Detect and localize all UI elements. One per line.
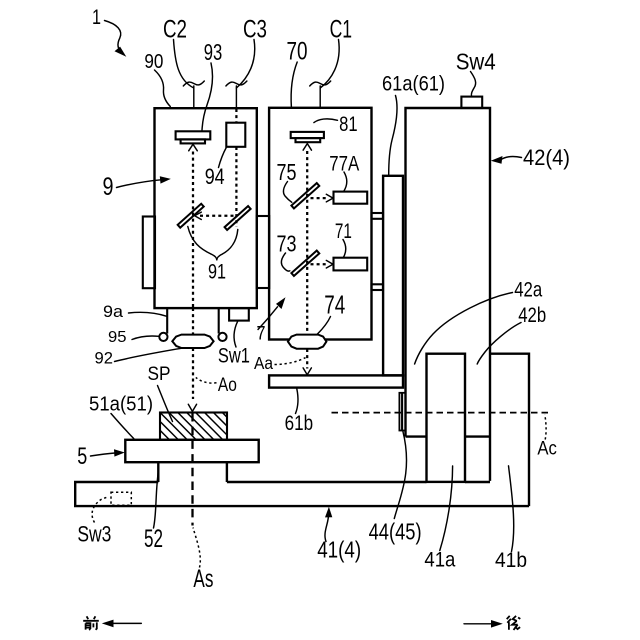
svg-text:61a(61): 61a(61) [382, 73, 445, 96]
optical path to 77A [311, 197, 328, 199]
svg-text:9a: 9a [103, 302, 124, 321]
leader arrow for label 1 [105, 21, 122, 53]
leader 44(45) [394, 431, 406, 519]
arrow down onto specimen SP [188, 404, 196, 411]
svg-text:51a(51): 51a(51) [89, 393, 153, 415]
svg-text:Ao: Ao [218, 375, 237, 396]
leader 52 [154, 470, 159, 528]
switch Sw1 box [229, 308, 249, 321]
lens barrel 9a [166, 308, 168, 333]
leader 81 [314, 119, 338, 123]
svg-text:91: 91 [208, 261, 226, 284]
axis Ac (dashed horizontal) [332, 412, 549, 414]
leader Sw3 (dotted) [92, 497, 107, 523]
switch Sw3 dotted box [111, 492, 131, 505]
lens 74 [288, 335, 327, 349]
svg-text:70: 70 [287, 38, 308, 66]
svg-text:41b: 41b [495, 548, 527, 572]
svg-text:42b: 42b [518, 304, 546, 327]
svg-text:41(4): 41(4) [317, 537, 361, 563]
leader 75 [283, 182, 291, 203]
pillar 41a [427, 354, 466, 482]
svg-text:Ac: Ac [537, 438, 557, 460]
svg-text:5: 5 [77, 443, 87, 470]
mirror 91 right [225, 206, 251, 230]
svg-text:61b: 61b [285, 412, 314, 435]
svg-text:75: 75 [277, 159, 297, 185]
svg-text:95: 95 [108, 329, 127, 346]
cable C2 [174, 40, 194, 89]
cable C1 [320, 40, 339, 89]
leader arrow 5 [91, 453, 116, 456]
rear direction arrow [464, 623, 498, 625]
svg-text:1: 1 [92, 6, 101, 29]
tab upper between box 7 and bar 61a [372, 213, 384, 219]
column 42 bottom edge right of pillar [465, 435, 490, 437]
brace 91 [188, 227, 217, 260]
knob 95 right [218, 333, 226, 341]
leader Aa (dotted) [275, 358, 306, 365]
svg-text:Sw1: Sw1 [218, 345, 250, 368]
pedestal 52 left side [157, 462, 159, 482]
svg-text:77A: 77A [329, 152, 360, 176]
svg-text:SP: SP [148, 363, 171, 385]
leader 95 [132, 336, 159, 340]
pedestal 52 right side [226, 462, 228, 482]
horizontal optical path between mirrors [200, 215, 236, 217]
leader 93 [202, 63, 212, 130]
leader 41a [440, 466, 453, 551]
front direction arrow [107, 622, 141, 624]
svg-text:C2: C2 [163, 15, 187, 43]
leader SP [158, 386, 173, 422]
svg-text:C1: C1 [330, 15, 353, 43]
leader 51a(51) [111, 414, 134, 439]
leader As (dotted) [193, 528, 200, 568]
leader Ao (dotted) [196, 377, 217, 383]
svg-text:44(45): 44(45) [369, 519, 422, 545]
base 41 top edge (between pillars) [465, 481, 490, 483]
lens 92 [172, 335, 213, 348]
svg-text:As: As [193, 565, 213, 593]
arrow down onto plate 61b [303, 368, 311, 375]
box 9 (first camera unit) [155, 108, 257, 308]
pillar 41b top and right edge [490, 354, 529, 506]
leader 70 [291, 62, 297, 107]
leader 61b [296, 389, 298, 414]
camera 93 (image sensor) [176, 131, 211, 139]
optical axis in box 9 (dotted) [192, 152, 194, 309]
svg-text:C3: C3 [243, 15, 267, 43]
connector tab between box 9 and box 7 [257, 216, 269, 288]
cable C3 [236, 40, 254, 89]
sensor 71 box [334, 258, 368, 271]
svg-text:93: 93 [204, 39, 223, 65]
leader 74 [317, 317, 330, 335]
svg-text:52: 52 [144, 525, 163, 553]
svg-text:9: 9 [103, 173, 114, 201]
kanji mae (front) [83, 616, 99, 630]
svg-text:71: 71 [335, 219, 352, 243]
leader 77A [344, 172, 347, 191]
svg-text:41a: 41a [424, 548, 455, 572]
leader 41b [509, 466, 514, 552]
base 41 top edge (middle segment) [227, 481, 427, 483]
leader 94 [219, 148, 227, 168]
arrow up into camera 93 [189, 144, 198, 151]
leader 42b [477, 323, 521, 365]
svg-text:73: 73 [277, 231, 297, 257]
leader arrow 7 [258, 307, 278, 330]
leader 92 [115, 348, 182, 361]
box 7 (second camera unit) [269, 108, 371, 340]
svg-text:94: 94 [205, 164, 225, 189]
svg-text:92: 92 [95, 349, 114, 368]
svg-text:7: 7 [257, 324, 266, 345]
svg-text:Aa: Aa [254, 353, 273, 373]
tab on left of box 9 [143, 217, 155, 289]
svg-text:Sw3: Sw3 [77, 522, 111, 547]
svg-text:81: 81 [339, 112, 358, 136]
leader 42a [415, 293, 513, 365]
svg-text:90: 90 [144, 51, 163, 73]
column 42 outline [406, 108, 491, 481]
switch Sw4 box on top of column 42 [461, 97, 482, 108]
bar 61a [383, 176, 403, 376]
kanji ushiro (rear) [507, 616, 521, 630]
leader 73 [281, 253, 289, 271]
arrow up into camera 81 [303, 144, 311, 151]
optical axis from 94 (dotted) [235, 109, 237, 123]
rail 44(45) on left of column 42 [399, 393, 405, 431]
leader 90 [155, 70, 171, 107]
optical axis in box 7 (dotted) [306, 151, 308, 334]
leader 9a [129, 312, 167, 316]
svg-text:74: 74 [324, 290, 345, 320]
leader 71 [343, 240, 346, 258]
svg-text:Sw4: Sw4 [456, 48, 496, 74]
camera 81 (image sensor) [291, 132, 324, 138]
svg-text:42(4): 42(4) [523, 145, 570, 170]
plate 61b [269, 375, 403, 387]
mirror 73 [291, 251, 319, 276]
mirror 91 left [178, 204, 204, 228]
svg-text:42a: 42a [514, 279, 542, 302]
sensor 77A box [334, 192, 368, 204]
optical path to 71 [311, 263, 328, 265]
leader arrow 42(4) [500, 156, 522, 160]
leader arrow 41(4) [325, 514, 329, 542]
leader Sw1 [234, 321, 238, 347]
knob 95 left [159, 333, 167, 341]
component 94 [226, 123, 245, 147]
mirror 75 [291, 183, 319, 208]
column 42 bottom edge left of pillar [406, 435, 427, 437]
leader Ac (dotted) [545, 415, 546, 440]
axis As (long dashes) [191, 413, 193, 526]
stage 5 [125, 440, 258, 462]
tab lower between box 7 and bar 61a [372, 284, 384, 290]
base 41 outline [75, 482, 529, 506]
leader arrow 9 [117, 180, 162, 188]
leader 61a(61) [389, 96, 397, 176]
leader Sw4 [471, 72, 476, 97]
